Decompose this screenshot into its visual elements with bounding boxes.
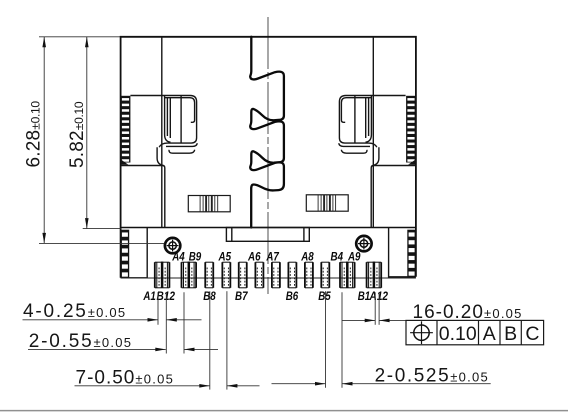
pin A5: [221, 262, 223, 288]
svg-text:A9: A9: [347, 251, 361, 263]
pin A6: [254, 262, 256, 288]
shell body outline (top, left, right, bottom edges): [121, 37, 416, 278]
extension line from B8 pin: [209, 291, 211, 389]
svg-text:A1: A1: [142, 291, 155, 303]
upper-right ladder end wedge: [408, 160, 416, 165]
pad A4 B9: [181, 262, 183, 288]
lower-left mounting tab outline: [121, 228, 148, 278]
dimension 2-0.525 +/-0.05 leader and arrows: [272, 383, 326, 385]
extension line from A12 pin right edge: [378, 292, 380, 325]
svg-text:2-0.525±0.05: 2-0.525±0.05: [375, 366, 489, 387]
left latch vertical rib 4: [180, 96, 182, 144]
svg-text:A7: A7: [265, 251, 279, 263]
svg-text:B1: B1: [358, 291, 371, 303]
left latch rolled lip line 3: [169, 150, 195, 153]
extension line at flange bottom (6.28 datum): [39, 242, 164, 244]
right latch outer contour: [339, 96, 405, 148]
extension line from A4 pad: [183, 292, 185, 353]
extension line from B5 pin: [325, 291, 327, 388]
left inner wall line: [161, 37, 163, 228]
dimension line 5.82 with arrows: [86, 37, 88, 229]
svg-text:A: A: [483, 323, 496, 345]
extension line from A5 pin: [226, 291, 228, 389]
svg-text:6.28±0.10: 6.28±0.10: [23, 101, 44, 168]
extension line from B12 pad edge: [165, 292, 167, 353]
extension line at shell bottom (5.82 datum): [83, 228, 121, 230]
right stamped dimple box: [306, 195, 348, 211]
left latch base line: [121, 166, 165, 228]
right latch base line: [371, 166, 415, 228]
upper-left serrated shield fingers: [121, 96, 131, 163]
left latch outer contour: [130, 96, 196, 148]
GD&T feature control frame: [406, 320, 544, 344]
pin B8: [204, 262, 206, 288]
upper-left ladder end wedge: [121, 160, 129, 165]
extension line from A12 pin left edge: [374, 292, 376, 325]
svg-text:B4: B4: [331, 251, 344, 263]
svg-text:A4: A4: [171, 251, 185, 263]
lower-right serrated shield fingers: [407, 230, 416, 277]
lower-left serrated shield fingers: [121, 230, 130, 278]
svg-text:B: B: [504, 323, 517, 345]
right latch vertical rib 2: [368, 98, 370, 136]
dovetail weld seam on shell: [250, 37, 284, 228]
right latch rolled lip line 2: [339, 143, 370, 146]
left rivet: [165, 238, 180, 253]
upper-right serrated shield fingers: [406, 96, 416, 163]
left latch vertical rib 1: [165, 96, 171, 143]
extension line from B4 pad: [341, 292, 343, 388]
left latch rolled lip line 2: [166, 143, 197, 146]
svg-text:B6: B6: [286, 291, 299, 303]
dimension line 6.28 with arrows: [43, 37, 45, 244]
svg-text:B5: B5: [318, 291, 331, 303]
page border line at bottom: [0, 410, 568, 412]
right latch foot: [373, 147, 379, 165]
dimension 7-0.50 +/-0.05 leader and arrows: [75, 385, 210, 387]
svg-text:B7: B7: [235, 291, 248, 303]
left latch foot: [157, 147, 163, 165]
svg-text:A6: A6: [247, 251, 261, 263]
left latch inner top line: [165, 98, 195, 123]
right latch rolled lip line 3: [341, 150, 367, 153]
right latch vertical rib 3: [365, 98, 367, 138]
GD&T position symbol: [414, 325, 429, 340]
shell top extension line (to dimension lines): [39, 36, 121, 38]
dimension 16-0.20 +/-0.05 leader and arrows: [342, 319, 375, 321]
pin B6: [287, 262, 289, 288]
left latch vertical rib 2: [166, 98, 168, 136]
left latch vertical rib 3: [169, 98, 171, 138]
pad B4 A9: [339, 262, 341, 288]
left stamped dimple box: [188, 196, 230, 212]
contact tongue at bottom center: [226, 228, 309, 242]
svg-text:A5: A5: [218, 251, 232, 263]
svg-text:5.82±0.10: 5.82±0.10: [67, 101, 88, 168]
svg-text:A8: A8: [300, 251, 314, 263]
vertical centerline of connector: [267, 17, 269, 294]
svg-text:C: C: [525, 323, 539, 345]
pin B5: [320, 262, 322, 288]
right latch inner top line: [341, 98, 371, 123]
svg-text:B9: B9: [189, 251, 202, 263]
right rivet: [356, 236, 371, 251]
lower-right mounting tab outline: [389, 228, 416, 277]
svg-text:A12: A12: [369, 291, 389, 303]
svg-text:0.10: 0.10: [439, 323, 477, 345]
right inner wall line: [372, 37, 374, 228]
pad B1 A12: [366, 262, 368, 288]
pin A8: [304, 262, 306, 288]
dimension 4-0.25 +/-0.05 leader and arrows: [23, 319, 159, 321]
pin B7: [238, 262, 240, 288]
seating plane line across pins: [121, 277, 416, 279]
extension line from A1 pad edge: [157, 292, 159, 325]
pad A1 B12: [154, 262, 156, 288]
svg-text:4-0.25±0.05: 4-0.25±0.05: [23, 301, 126, 322]
dimension 2-0.55 +/-0.05 leader and arrows: [28, 348, 166, 350]
svg-text:2-0.55±0.05: 2-0.55±0.05: [29, 331, 132, 352]
right latch vertical rib 1: [366, 96, 372, 143]
pin A7: [271, 262, 273, 288]
svg-text:7-0.50±0.05: 7-0.50±0.05: [76, 368, 175, 389]
right latch vertical rib 4: [354, 96, 356, 144]
